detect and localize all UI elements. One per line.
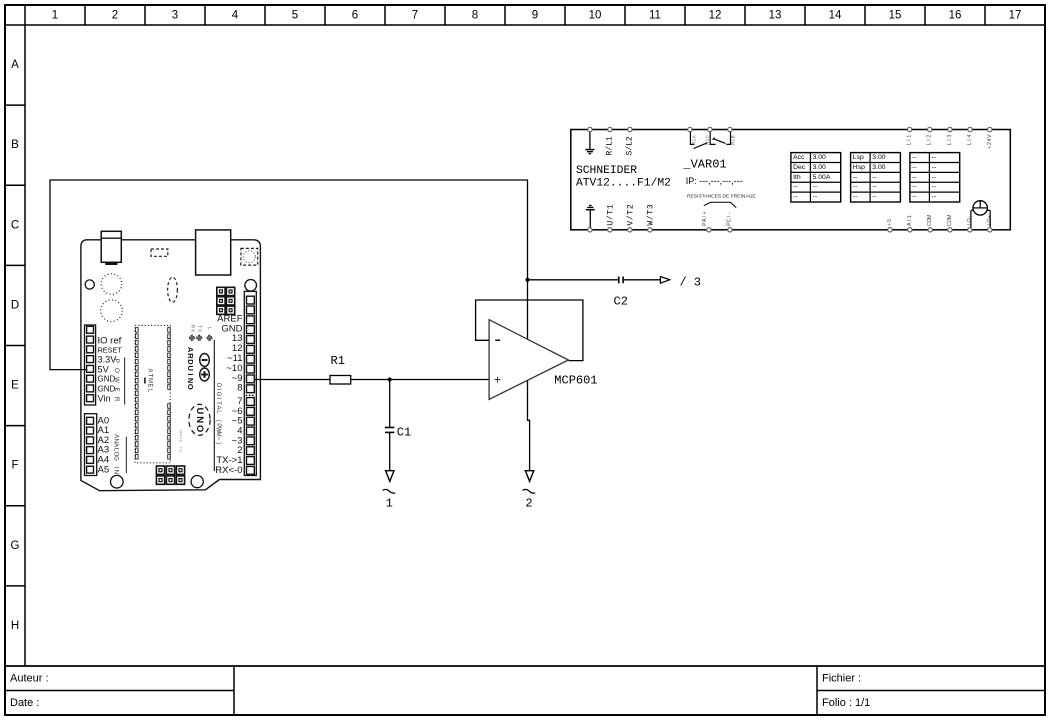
svg-text:3: 3: [947, 135, 953, 138]
svg-text:10: 10: [589, 10, 602, 22]
svg-text:ATV12....F1/M2: ATV12....F1/M2: [576, 178, 671, 190]
terminal label V/T2: [627, 204, 636, 226]
terminal label U/T1: [607, 204, 616, 226]
net 2 squiggle: [523, 489, 536, 493]
terminal label PA/+: [702, 211, 708, 225]
digital pin labels upper: [217, 313, 243, 393]
svg-text:--: --: [932, 174, 937, 181]
made in italy tiny label: [179, 430, 184, 452]
svg-text:9: 9: [532, 10, 538, 22]
svg-text:3.00: 3.00: [872, 154, 885, 161]
op-amp minus sign: [495, 339, 500, 341]
row letters A-H: [11, 59, 20, 632]
svg-text:/: /: [680, 276, 687, 290]
svg-text:16: 16: [949, 10, 962, 22]
svg-text:T: T: [197, 325, 203, 328]
LED label L: [207, 327, 213, 330]
mounting hole bottom-left: [111, 475, 124, 488]
relay label R1B: [731, 135, 736, 145]
mounting hole top-right: [245, 280, 257, 292]
svg-text:RX<-0: RX<-0: [215, 465, 242, 476]
svg-text:I: I: [927, 139, 933, 141]
svg-text:U: U: [607, 221, 616, 226]
relay contact R1C stub: [710, 132, 715, 145]
svg-text:8: 8: [472, 10, 478, 22]
svg-text:--: --: [872, 194, 877, 201]
svg-text:R: R: [186, 353, 195, 359]
svg-text:5: 5: [292, 10, 298, 22]
svg-text:N: N: [113, 470, 120, 474]
svg-text:8: 8: [237, 383, 242, 394]
svg-text:6: 6: [352, 10, 358, 22]
svg-text:3.00: 3.00: [813, 154, 826, 161]
svg-text:V: V: [627, 221, 636, 226]
LED label RX: [189, 325, 195, 333]
svg-text:D: D: [11, 299, 19, 311]
svg-text:L: L: [907, 142, 913, 145]
svg-text:Hsp: Hsp: [853, 164, 865, 171]
ARDUINO vertical label: [186, 347, 195, 390]
svg-text:W: W: [647, 221, 656, 226]
svg-text:--: --: [912, 194, 917, 201]
ground net arrow 2: [525, 471, 533, 482]
svg-text:Date :: Date :: [10, 697, 39, 709]
svg-text:M: M: [927, 214, 933, 219]
terminal label PC/-: [727, 212, 733, 226]
svg-text:A: A: [147, 368, 153, 372]
svg-text:E: E: [11, 380, 19, 392]
svg-text:R1: R1: [331, 354, 345, 368]
svg-text:3: 3: [694, 276, 701, 290]
svg-text:1: 1: [907, 215, 913, 218]
svg-text:2: 2: [987, 142, 993, 145]
svg-text:B: B: [11, 139, 19, 151]
dashed jumper rect near top: [151, 249, 168, 256]
Arduino USB connector: [196, 230, 231, 275]
POWER bracket line: [124, 358, 126, 405]
svg-text:C: C: [727, 218, 733, 222]
title block: [5, 666, 1045, 715]
POWER section label: [113, 359, 120, 402]
svg-text:/: /: [647, 215, 656, 220]
ground symbol top-left of drive: [585, 131, 594, 154]
svg-text:RESISTANCES DE FREINAGE: RESISTANCES DE FREINAGE: [687, 194, 756, 200]
svg-text:GND: GND: [98, 385, 116, 394]
svg-text:Lsp: Lsp: [853, 154, 864, 161]
svg-text:--: --: [912, 154, 917, 161]
svg-text:1: 1: [52, 10, 58, 22]
LED label TX: [197, 325, 203, 333]
svg-text:3.00: 3.00: [872, 164, 885, 171]
Schneider ATV12 drive block outline: [571, 130, 1011, 230]
svg-text:M: M: [147, 378, 153, 383]
svg-text:--: --: [932, 194, 937, 201]
ground symbol bottom-left of drive: [586, 205, 595, 229]
wire from Arduino pin ~9 to R1: [254, 379, 330, 381]
svg-text:N: N: [179, 449, 184, 452]
svg-text:E: E: [147, 383, 153, 387]
polarity plus symbol: [200, 368, 210, 381]
svg-text:14: 14: [829, 10, 842, 22]
ANALOG IN section label: [113, 434, 120, 474]
svg-text:SCHNEIDER: SCHNEIDER: [576, 165, 637, 177]
DIGITAL (PWM~) section label: [215, 383, 221, 444]
polarity minus symbol: [200, 354, 210, 367]
svg-text:T: T: [647, 210, 656, 215]
svg-text:B: B: [731, 135, 736, 138]
svg-text:--: --: [853, 194, 858, 201]
svg-text:GND: GND: [98, 375, 116, 384]
svg-text:/: /: [607, 215, 616, 220]
svg-text:(: (: [215, 420, 221, 422]
ATMEL chip dotted outline: [135, 325, 170, 462]
svg-text:I: I: [907, 220, 913, 222]
svg-text:V: V: [987, 134, 993, 138]
svg-text:2: 2: [625, 136, 634, 141]
svg-text:_VAR01: _VAR01: [682, 158, 726, 172]
wire junction to C2: [528, 279, 619, 281]
svg-text:1: 1: [607, 204, 616, 209]
svg-text:17: 17: [1009, 10, 1022, 22]
svg-text:--: --: [932, 164, 937, 171]
svg-text:I: I: [907, 139, 913, 141]
svg-text:+: +: [987, 146, 993, 149]
3x2 pin header near AREF: [217, 287, 235, 314]
svg-text:U: U: [186, 365, 195, 370]
svg-text:I: I: [967, 139, 973, 141]
svg-text:MCP601: MCP601: [554, 374, 597, 388]
wire C1 to ground arrow 1: [389, 433, 391, 471]
Arduino Uno board outline: [81, 240, 261, 491]
svg-text:T: T: [627, 210, 636, 215]
svg-text:W: W: [113, 377, 120, 383]
svg-text:G: G: [113, 456, 120, 461]
column numbers 1-17: [52, 10, 1022, 22]
svg-text:D: D: [186, 359, 195, 365]
relay contact R1A stub: [690, 132, 694, 145]
svg-text:G: G: [11, 540, 20, 552]
svg-text:5: 5: [887, 219, 893, 222]
settings table 3 empty: [910, 153, 960, 202]
junction node dot on 5V net at C2 tap: [526, 278, 530, 282]
svg-text:A5: A5: [98, 464, 110, 475]
svg-text:13: 13: [769, 10, 782, 22]
svg-text:Folio : 1/1: Folio : 1/1: [822, 697, 870, 709]
wire C2 to net arrow 3: [624, 279, 661, 281]
svg-text:T: T: [607, 210, 616, 215]
pin labels A0-A5: [98, 415, 110, 475]
svg-text:Fichier :: Fichier :: [822, 673, 861, 685]
svg-text:L: L: [947, 142, 953, 145]
svg-text:--: --: [932, 184, 937, 191]
svg-text:N: N: [194, 416, 205, 423]
svg-text:H: H: [11, 620, 19, 632]
net 1 squiggle: [383, 489, 396, 493]
svg-text:2: 2: [525, 496, 532, 510]
svg-text:E: E: [113, 387, 120, 391]
svg-text:E: E: [179, 440, 184, 443]
dotted circle pad 1: [101, 274, 122, 295]
junction node dot at C1 tap: [388, 378, 392, 382]
potentiometer symbol: [971, 200, 990, 230]
relay label R1C: [704, 135, 709, 145]
svg-text:--: --: [813, 194, 818, 201]
svg-text:--: --: [872, 174, 877, 181]
svg-text:Dec: Dec: [793, 164, 806, 171]
svg-text:I: I: [113, 467, 120, 469]
svg-text:1: 1: [907, 135, 913, 138]
svg-text:O: O: [967, 218, 973, 222]
svg-text:I: I: [179, 447, 184, 448]
dashed ellipse (crystal): [168, 277, 178, 302]
op-amp U1 MCP601 triangle: [489, 320, 568, 400]
svg-text:): ): [215, 442, 221, 444]
dashed square with dotted circle (top right): [241, 248, 258, 265]
svg-text:~: ~: [215, 437, 221, 441]
ANALOG IN bracket line: [125, 437, 127, 473]
digital pin labels lower: [215, 396, 242, 476]
svg-text:12: 12: [709, 10, 722, 22]
svg-text:3: 3: [172, 10, 178, 22]
svg-text:--: --: [813, 184, 818, 191]
svg-text:--: --: [853, 184, 858, 191]
svg-text:+: +: [887, 223, 893, 226]
svg-text:R: R: [113, 397, 120, 402]
svg-text:IP: ---,---,---,---: IP: ---,---,---,---: [686, 176, 743, 186]
capacitor C1: [385, 428, 394, 433]
svg-text:--: --: [793, 194, 798, 201]
svg-text:--: --: [793, 184, 798, 191]
DIGITAL header strip (AREF..0): [244, 291, 256, 475]
svg-text:C2: C2: [614, 294, 628, 308]
svg-text:3: 3: [647, 204, 656, 209]
svg-text:Ith: Ith: [793, 174, 801, 181]
dotted circle pad 2: [101, 300, 123, 322]
svg-text:-: -: [967, 216, 973, 218]
wire down to C1: [389, 380, 391, 428]
capacitor C2: [619, 277, 623, 284]
svg-text:G: G: [215, 392, 221, 397]
svg-text:5.00A: 5.00A: [813, 174, 831, 181]
ATMEL chip pins right column: [168, 328, 171, 459]
svg-text:1: 1: [605, 136, 614, 141]
ATMEL label: [145, 368, 153, 392]
svg-text:7: 7: [412, 10, 418, 22]
svg-text:4: 4: [232, 10, 239, 22]
svg-text:+: +: [494, 373, 501, 387]
svg-text:L: L: [967, 142, 973, 145]
ground net arrow 1: [386, 471, 394, 482]
svg-text:11: 11: [649, 10, 661, 22]
mounting hole top-left: [85, 280, 94, 289]
svg-text:4: 4: [967, 135, 973, 138]
svg-text:O: O: [113, 368, 120, 373]
svg-text:Vin: Vin: [98, 394, 111, 404]
drive bottom terminals: [588, 228, 992, 232]
svg-text:L: L: [207, 327, 213, 330]
wire R1 to op-amp + input: [351, 379, 489, 381]
svg-text:I: I: [186, 373, 195, 375]
svg-text:L: L: [927, 142, 933, 145]
svg-text:F: F: [11, 460, 18, 472]
LED L: [206, 335, 213, 342]
svg-text:/: /: [627, 215, 636, 220]
ATMEL chip pins left column: [136, 328, 139, 459]
svg-text:Auteur :: Auteur :: [10, 673, 49, 685]
svg-text:+: +: [702, 211, 708, 214]
svg-text:--: --: [932, 154, 937, 161]
POWER pin header strip: [85, 325, 96, 405]
settings table 2 Lsp/Hsp: [851, 153, 901, 202]
feedback wire loop output to inverting input: [476, 300, 583, 361]
svg-text:M: M: [947, 214, 953, 219]
net arrow 3: [660, 277, 669, 284]
svg-text:P: P: [113, 359, 120, 363]
svg-text:1: 1: [386, 496, 393, 510]
svg-text:--: --: [912, 164, 917, 171]
svg-text:C: C: [11, 219, 19, 231]
svg-text:2: 2: [627, 204, 636, 209]
svg-text:A: A: [691, 135, 696, 138]
svg-text:RESET: RESET: [98, 346, 123, 355]
LED RX: [189, 335, 196, 342]
resistor R1: [330, 376, 351, 385]
ANALOG IN pin header strip: [85, 414, 97, 476]
DIGITAL bracket line: [213, 340, 215, 471]
svg-text:U: U: [194, 407, 205, 414]
UNO label: [194, 407, 205, 432]
svg-text:2: 2: [927, 135, 933, 138]
svg-text:15: 15: [889, 10, 902, 22]
terminal label S/L2: [625, 136, 634, 155]
svg-text:--: --: [872, 184, 877, 191]
terminal labels +5 AI1 COM COM LO- LO+: [887, 214, 993, 226]
LED TX: [196, 335, 203, 342]
svg-text:A: A: [215, 405, 221, 409]
svg-text:N: N: [186, 378, 195, 383]
ICSP 3x2 header bottom: [156, 466, 184, 484]
relay label R1A: [691, 135, 696, 145]
relay contact R1B stub: [726, 132, 730, 145]
Arduino power barrel jack: [101, 231, 121, 264]
svg-text:C1: C1: [397, 425, 411, 439]
svg-text:I: I: [947, 139, 953, 141]
wire 5V net: Arduino 5V pin left, up, across top, down to op-amp V+: [50, 180, 528, 370]
svg-text:2: 2: [112, 10, 118, 22]
svg-text:O: O: [186, 384, 195, 390]
svg-text:--: --: [853, 174, 858, 181]
settings table 1 Acc/Dec/Ith: [791, 153, 841, 202]
UNO dashed oval: [189, 404, 210, 435]
svg-text:--: --: [912, 174, 917, 181]
terminal labels LI1-LI4 +24V: [907, 134, 993, 149]
op-amp V- wire down to ground arrow 2: [528, 380, 530, 470]
relay moving contact blades: [694, 138, 726, 149]
svg-text:3.00: 3.00: [813, 164, 826, 171]
svg-text:5V: 5V: [98, 365, 110, 375]
terminal label W/T3: [647, 204, 656, 226]
svg-text:O: O: [194, 425, 205, 432]
svg-text:D: D: [215, 383, 221, 388]
terminal label R/L1: [605, 136, 614, 155]
svg-text:Acc: Acc: [793, 154, 805, 161]
drive top terminals: [588, 127, 992, 131]
freinage bracket: [704, 202, 736, 207]
svg-text:A: A: [907, 222, 913, 226]
mounting hole bottom-center: [191, 476, 203, 488]
svg-text:--: --: [912, 184, 917, 191]
svg-text:A: A: [186, 347, 195, 353]
svg-text:A: A: [11, 59, 19, 71]
